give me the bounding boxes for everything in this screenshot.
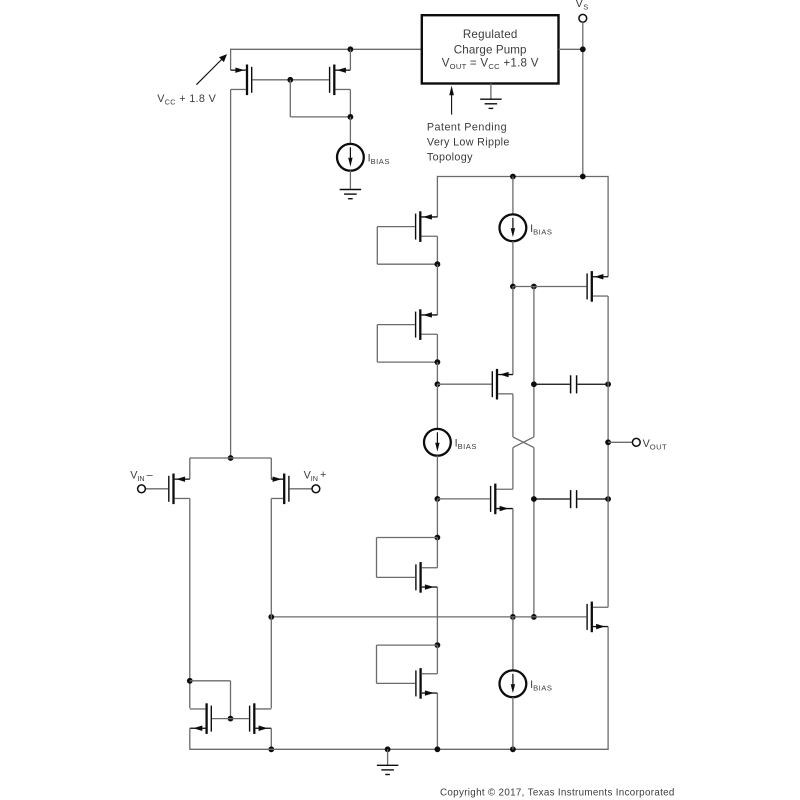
wire M2 drain down xyxy=(349,89,351,116)
current source I1 IBIAS top-left xyxy=(337,144,364,171)
wire crossover branch down to lower rail xyxy=(533,448,535,617)
svg-text:Regulated: Regulated xyxy=(463,28,518,41)
transistor MM bottom mirror NMOS xyxy=(231,703,272,734)
current source I3 IBIAS middle xyxy=(424,429,451,456)
wire MH gate wire xyxy=(513,286,586,288)
current source I2 IBIAS upper middle xyxy=(500,214,527,241)
node I4 / ground rail junction xyxy=(510,746,516,752)
ground below I1 xyxy=(340,173,362,199)
node MB drain junction xyxy=(435,359,441,365)
wire ME gate loop vertical xyxy=(376,538,378,578)
svg-text:IBIAS: IBIAS xyxy=(368,153,390,166)
transistor MF diode-connected NMOS xyxy=(377,668,438,699)
terminal VIN- xyxy=(138,485,146,493)
wire MA drain to MB source xyxy=(436,264,438,315)
wire MK source down to ground rail xyxy=(607,627,609,750)
transistor MC cascode PMOS xyxy=(437,369,513,400)
wire MIN+ drain down right branch xyxy=(270,498,272,708)
wire lower rail to MK gate xyxy=(271,616,586,618)
wire MB gate loop vertical xyxy=(376,325,378,363)
wire crossover right-to-left xyxy=(513,437,534,448)
wire crossover left-to-right xyxy=(513,437,534,448)
transistor MA diode-connected PMOS xyxy=(377,211,437,242)
svg-text:Charge Pump: Charge Pump xyxy=(454,43,527,56)
node capacitor C1 tap xyxy=(531,381,537,387)
transistor ML bottom mirror NMOS xyxy=(190,703,231,734)
svg-text:VS: VS xyxy=(576,0,589,12)
wire tail left drop xyxy=(189,458,191,479)
wire tail from left mirror xyxy=(228,455,234,461)
node ML drain / gate tap junction xyxy=(187,678,193,684)
svg-text:IBIAS: IBIAS xyxy=(455,438,477,451)
wire MD source down to lower rail xyxy=(512,509,514,617)
wire charge pump output to VS line xyxy=(559,48,583,50)
wire MIN- drain down left branch xyxy=(189,498,191,708)
svg-text:IBIAS: IBIAS xyxy=(530,679,552,692)
wire MA gate loop to drain xyxy=(377,263,437,265)
wire M1 source drop from rail xyxy=(230,49,232,71)
node MH gate node left xyxy=(510,284,516,290)
wire MF drain up xyxy=(436,645,438,674)
transistor MIN- input PMOS xyxy=(145,474,189,505)
node MF drain junction xyxy=(435,642,441,648)
charge pump box xyxy=(422,15,559,83)
wire ME source down crossing rail to MF drain xyxy=(436,587,438,645)
node rail / VS junction xyxy=(580,174,586,180)
wire MF gate loop vertical xyxy=(376,645,378,683)
ground below charge pump xyxy=(480,84,502,109)
svg-text:VOUT: VOUT xyxy=(643,438,667,452)
transistor MK output NMOS xyxy=(586,602,608,633)
transistor ME diode-connected NMOS xyxy=(377,562,438,593)
node ground rail / ground symbol junction xyxy=(385,746,391,752)
wire VOUT tap xyxy=(608,441,632,443)
wire ML source to ground rail xyxy=(189,728,191,750)
wire MM source to ground rail xyxy=(270,728,272,749)
terminal VS xyxy=(579,14,587,22)
wire MF source to ground rail xyxy=(436,693,438,749)
wire ME drain up xyxy=(436,538,438,568)
node MD gate node xyxy=(435,496,441,502)
node MC gate node xyxy=(435,381,441,387)
node input branch / lower rail junction xyxy=(268,614,274,620)
node MA drain junction xyxy=(435,261,441,267)
node VS / charge pump junction xyxy=(580,46,586,52)
node ME drain junction xyxy=(435,535,441,541)
wire gate tie to M2 drain xyxy=(290,116,350,118)
transistor M1 top-left mirror PMOS xyxy=(231,65,291,96)
transistor M2 top-left mirror PMOS xyxy=(290,65,350,96)
wire amplifier top rail xyxy=(437,176,608,178)
wire MD gate node down to ME drain xyxy=(436,499,438,538)
node MM source / ground rail junction xyxy=(268,746,274,752)
wire ME gate loop top xyxy=(377,537,438,539)
wire I3 to MD gate node xyxy=(436,456,438,499)
node rail / I2 junction xyxy=(510,174,516,180)
terminal VIN+ xyxy=(312,485,320,493)
wire lower rail down to I4 xyxy=(512,617,514,671)
capacitor C1 xyxy=(534,375,608,393)
wire MH drain down output rail xyxy=(607,296,609,607)
wire rail down to MH source xyxy=(607,176,609,277)
wire I1 to ground xyxy=(349,170,351,173)
callout arrow patent pending xyxy=(451,94,453,115)
transistor MB diode-connected PMOS xyxy=(377,309,437,340)
wire M1 drain long left wire to input pair tail xyxy=(230,89,232,458)
wire M2 drain to current source xyxy=(349,117,351,144)
wire crossover to MD drain xyxy=(512,448,514,490)
ground main rail xyxy=(377,749,399,774)
callout arrow to VCC+1.8V rail xyxy=(196,59,222,85)
wire rail down to MA source xyxy=(436,176,438,217)
node C1 / output rail junction xyxy=(605,381,611,387)
node top rail / M2 source junction xyxy=(348,46,354,52)
svg-text:VIN+: VIN+ xyxy=(304,469,327,483)
wire MB gate loop to drain xyxy=(377,361,437,363)
wire top rail VCC+1.8V from left mirror to charge pump xyxy=(231,48,422,50)
svg-text:VCC + 1.8 V: VCC + 1.8 V xyxy=(157,93,216,106)
svg-text:Topology: Topology xyxy=(427,152,473,164)
transistor MH output PMOS xyxy=(586,271,608,302)
node M1-M2 gate tie xyxy=(287,77,293,83)
wire I4 down to ground rail xyxy=(512,697,514,749)
node mirror gate rail junction xyxy=(228,716,234,722)
wire I2 branch down to MC source xyxy=(512,287,514,375)
node MD branch / lower rail junction xyxy=(510,614,516,620)
svg-text:Copyright © 2017, Texas Instru: Copyright © 2017, Texas Instruments Inco… xyxy=(440,787,675,798)
wire tail right drop xyxy=(270,458,272,479)
node MH gate node right xyxy=(531,284,537,290)
wire mirror gate tap drop xyxy=(230,681,232,719)
node MF source / ground rail junction xyxy=(435,746,441,752)
terminal VOUT xyxy=(632,438,640,446)
wire gate tie drop xyxy=(289,80,291,117)
wire MC drain down to crossover xyxy=(512,394,514,437)
wire mirror gate tap horizontal xyxy=(190,680,231,682)
svg-text:VIN–: VIN– xyxy=(130,469,152,483)
wire VS down to amplifier rail xyxy=(582,22,584,176)
wire M2 source to rail xyxy=(349,49,351,70)
wire MB drain to MC gate node xyxy=(436,362,438,384)
wire MA drain down xyxy=(436,236,438,264)
node M2 drain / gate tie junction xyxy=(348,114,354,120)
transistor MD cascode NMOS xyxy=(437,484,513,515)
node right branch / lower rail junction xyxy=(531,614,537,620)
svg-text:Patent Pending: Patent Pending xyxy=(427,121,507,133)
capacitor C2 xyxy=(534,490,608,508)
wire I2 down to MH gate node xyxy=(512,241,514,287)
wire ground rail xyxy=(190,748,608,750)
charge pump text xyxy=(442,28,539,71)
transistor MIN+ input PMOS xyxy=(271,474,312,505)
svg-text:IBIAS: IBIAS xyxy=(530,223,552,236)
current source I4 IBIAS bottom xyxy=(500,670,527,697)
wire tail bar xyxy=(190,457,271,459)
svg-text:VOUT = VCC +1.8 V: VOUT = VCC +1.8 V xyxy=(442,57,539,71)
wire node down to I3 xyxy=(436,384,438,429)
svg-text:Very Low Ripple: Very Low Ripple xyxy=(427,137,510,149)
wire MB drain down xyxy=(436,334,438,362)
wire MF gate loop top xyxy=(377,644,438,646)
node capacitor C2 tap xyxy=(531,496,537,502)
wire rail down to I2 xyxy=(512,177,514,215)
node VOUT junction xyxy=(605,439,611,445)
label patent pending note xyxy=(427,121,510,163)
wire right branch from MH gate node down xyxy=(533,287,535,437)
node C2 / output rail junction xyxy=(605,496,611,502)
wire MA gate loop vertical xyxy=(376,227,378,265)
